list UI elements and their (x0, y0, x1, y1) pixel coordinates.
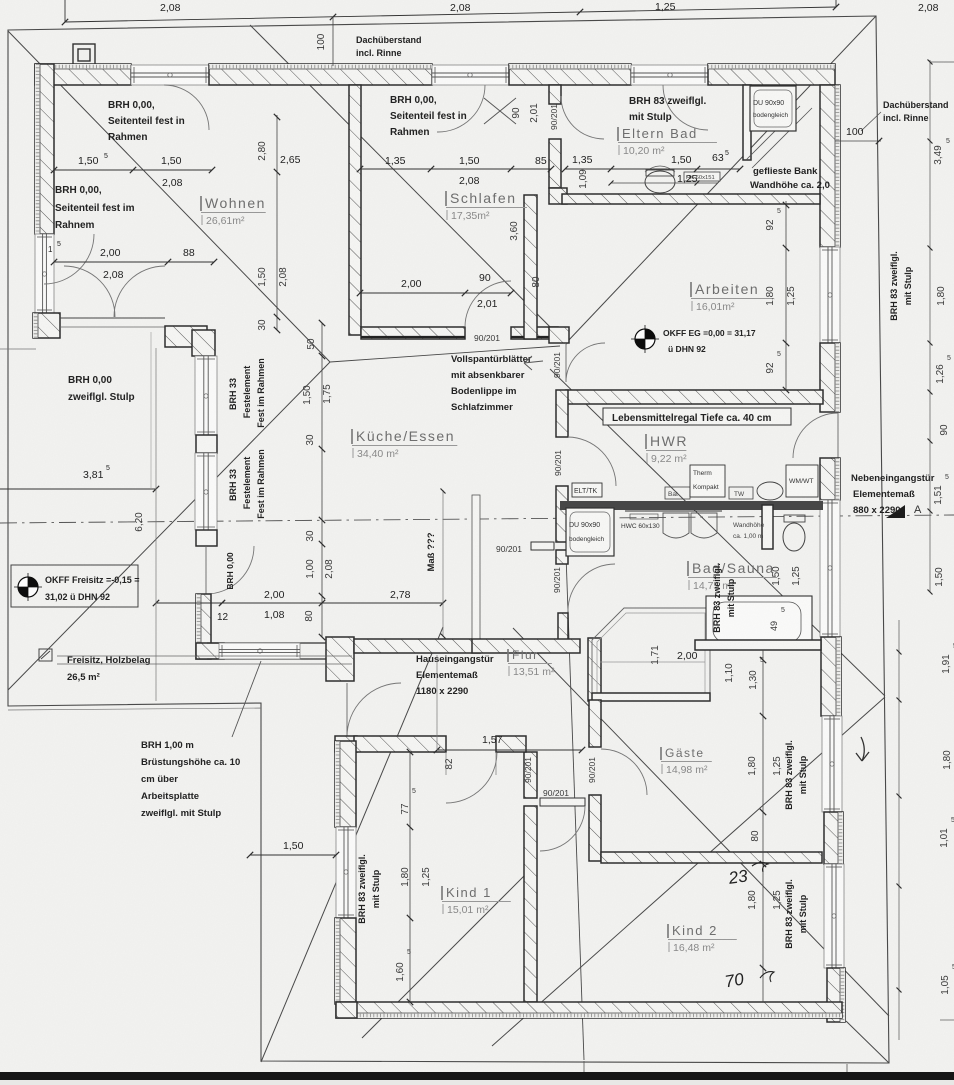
roof ridge south wing vertical (566, 555, 584, 1060)
window Arbeiten east window (820, 247, 840, 343)
wall entrance north wall (354, 639, 480, 653)
room label Schlafen (446, 190, 527, 222)
wall HWR south wall fixtures row (560, 501, 823, 510)
dim Arbeiten vertical (785, 201, 787, 390)
dim gaeste kind2 vertical chain (762, 650, 764, 1002)
basin HWR (757, 482, 783, 500)
dim right outer chain upper (929, 60, 931, 592)
handwritten arrow right side (856, 737, 869, 761)
wall hall west wall piece 2 (556, 486, 568, 542)
roof diagonal kind1 (362, 863, 537, 1038)
roof diagonal flur to south-east corner (513, 628, 889, 1016)
wall Flur east wall upper (588, 638, 601, 701)
WM/WT box (786, 465, 818, 497)
window Wohnen west window BRH 0,00 (35, 234, 54, 313)
ELT/TK box (572, 483, 602, 497)
wall Kind1 east wall upper (524, 752, 537, 798)
wall Schlafen east wall lower piece (549, 139, 561, 188)
door Eltern Bad 90/201 (561, 96, 604, 139)
door Kind1 90/201 82 (446, 752, 497, 803)
wall top wall segment schlafen-elternbad (509, 64, 631, 85)
wall Gaeste south wall (601, 852, 822, 863)
bench geflieste Bank diagonals (746, 106, 800, 160)
wall Wohnen west wall (35, 64, 54, 234)
dim 100 roof overhang right (835, 140, 881, 142)
window Kueche south window (219, 643, 300, 659)
dim Eltern Bad chain (565, 168, 740, 170)
washbasin Eltern Bad oval (645, 166, 675, 172)
bathtub (706, 596, 812, 648)
toilet Eltern Bad (645, 170, 675, 193)
door arc Wohnen west window (44, 234, 94, 284)
survey marker OKFF EG Arbeiten (631, 325, 659, 353)
dim 100 roof overhang top (332, 17, 334, 66)
toilet Bad (783, 515, 805, 551)
wall Gaeste west wall lower (589, 795, 601, 861)
roof ridge (330, 346, 560, 362)
wall Kind1 north wall west part (354, 736, 446, 752)
door Kueche terrace door BRH 0,00 (205, 546, 207, 594)
wall hall west wall stub (558, 613, 568, 641)
door Gaeste 90/201 (601, 749, 647, 795)
wall Schlafen east wall top piece (549, 85, 561, 104)
handwritten 70 (723, 969, 745, 991)
wall Gaeste north wall east part (695, 640, 821, 650)
roof hip south-east corner (846, 1021, 889, 1063)
roof valley to east (550, 369, 885, 696)
door arc vestibule (540, 806, 585, 851)
wall Wohnen south-west corner (33, 313, 60, 338)
wall south wall (336, 1002, 842, 1018)
leader to kueche south window (232, 661, 261, 737)
dim top chain (65, 7, 836, 22)
dim 1,57 (437, 749, 582, 751)
wall Gaeste north wall west part (592, 693, 710, 701)
dim 3,81 (0, 488, 156, 490)
dim kind1 vertical chain (409, 752, 411, 1002)
door HWR 90/201 (568, 437, 616, 486)
room label Eltern Bad (618, 126, 717, 157)
room label Bad/Sauna (688, 560, 777, 592)
wall south-west corner block (336, 1002, 357, 1018)
wall south wing west wall lower (335, 918, 356, 1004)
wall Kueche south wall with window (207, 642, 326, 644)
shower DU 90x90 Eltern Bad (750, 86, 796, 131)
wall top wall east segment (708, 64, 835, 85)
door arc Schlafen top window + X (437, 85, 485, 132)
handwritten 23 (726, 866, 749, 888)
wall Kueche window mullion block 2 (196, 530, 217, 546)
dim line wohnen west vertical (276, 115, 278, 330)
room label Arbeiten (691, 281, 772, 313)
roof hip top-left (8, 31, 330, 362)
wall Schlafen south wall west part (361, 327, 465, 339)
window east window Bad/Sauna (820, 500, 840, 637)
wall Wohnen south wall french door sill (60, 317, 165, 319)
shower DU 90x90 Bad (566, 508, 614, 556)
room label Flur (508, 648, 555, 678)
wall east wall segment gaeste-north (821, 637, 841, 716)
window Kind1 west window BRH 83 (336, 827, 356, 918)
wall Eltern Bad shower partition (743, 85, 751, 160)
window Eltern Bad top window (631, 65, 708, 85)
dim Wohnen west chain (54, 261, 214, 263)
window Gaeste east window BRH 83 (822, 716, 842, 812)
wall Kind1 east wall lower (524, 806, 537, 1002)
room label HWR (646, 433, 688, 465)
wall hall west wall piece 3 (556, 550, 568, 564)
wall WC partition Bad (762, 505, 773, 549)
roof hip east to south-west (492, 697, 885, 1046)
extension tick south (846, 1064, 848, 1074)
checkbox freisitz (39, 649, 52, 661)
kitchen counter MaB (472, 495, 480, 643)
wall Eltern Bad door hinge block (549, 188, 567, 204)
room label Küche/Essen (352, 428, 457, 460)
roof hip top-right (567, 16, 876, 342)
wall Kueche south-west corner foot (196, 643, 224, 659)
section line A-A (0, 515, 954, 523)
Lebensmittelregal box (603, 408, 791, 425)
sauna cabin (592, 608, 710, 700)
roof edge second line freisitz (8, 708, 261, 710)
wall entrance south wall to flur (472, 639, 580, 653)
roof diagonal long from top (250, 25, 567, 344)
wall Gaeste west wall upper (589, 700, 601, 747)
section marker A triangle (886, 505, 905, 518)
door bar Kueche-Flur 90/201 (531, 542, 554, 550)
wall east wall pier 23 (824, 812, 843, 864)
door Schlafen 90/201 (465, 281, 511, 327)
wall top wall middle segment (209, 64, 432, 85)
wall Kind1 north-west corner (335, 736, 357, 752)
dim Schlafen top chain (360, 168, 551, 170)
wall east wall hallway segment (820, 458, 840, 500)
door Arbeiten 90/201 at ridge (565, 343, 567, 382)
freisitz deck edge (57, 655, 352, 657)
dim right outer chain lower (898, 620, 900, 1040)
door bar vestibule 90/201 (540, 798, 585, 806)
door Nebeneingangstuer 880x2290 (837, 413, 839, 458)
roof edge west wing slant (261, 627, 443, 1062)
wall entrance step corner block (326, 637, 354, 681)
wall east wall at Nebeneingang (820, 343, 840, 412)
wall Arbeiten south wall / Lebensmittelregal wall (566, 390, 823, 404)
room label Wohnen (201, 195, 266, 227)
Therme Kompakt box (690, 465, 725, 497)
small box bat (665, 487, 690, 499)
wall Schlafen south-east wall foot (549, 327, 569, 343)
extension lines kueche (155, 348, 157, 701)
wall Kueche north-west corner block (192, 330, 215, 356)
wall south wing west wall upper (335, 741, 356, 827)
dim Schlafen bottom chain (360, 292, 511, 294)
dim 1,50 kind1 west (250, 854, 336, 856)
wall hall west wall piece 1 (556, 390, 568, 437)
door Hauseingangstuer 1180x2290 (346, 683, 348, 737)
window Kueche west window 2 BRH 33 (195, 453, 217, 530)
wall Schlafen south wall east part (511, 327, 558, 339)
roof hip apex to bottom-left (8, 362, 330, 690)
room label Kind 1 (442, 885, 511, 916)
window Schlafen top window (432, 65, 509, 85)
washbasin Eltern Bad HK 60x151 (684, 172, 720, 181)
wall Kind1 north wall east part (496, 736, 526, 752)
wall Wohnen-Schlafen partition (349, 85, 361, 335)
dim Kueche vertical chain (321, 323, 323, 637)
door arc Wohnen top window (164, 85, 209, 130)
dim Wohnen window chain (54, 169, 212, 171)
wall top wall west segment (35, 64, 131, 85)
window Kind 2 east window BRH 83 (824, 864, 844, 968)
dim kueche-entrance horizontal chain (156, 602, 443, 604)
door arc Eltern Bad top window (663, 85, 708, 130)
survey marker OKFF Freisitz box (11, 565, 140, 607)
door Flur-Bad 90/201 (568, 564, 615, 611)
TW box (729, 487, 753, 499)
leader arrow to door (524, 356, 543, 370)
wall Eltern Bad south wall (562, 194, 820, 204)
chimney (73, 44, 95, 66)
window Kueche west window 1 BRH 33 (195, 356, 217, 435)
window Wohnen top window (131, 65, 209, 85)
wall south-east corner wall (827, 968, 845, 1022)
double washbasin HWC 60x130 (625, 511, 722, 538)
scanner black bar bottom (0, 1072, 954, 1080)
room label Kind 2 (668, 923, 737, 954)
wall east wall upper segment (820, 85, 840, 247)
wall Schlafen east wall to hall (524, 195, 537, 339)
room label Gäste (661, 746, 712, 776)
wall Kueche south-west corner wall (196, 594, 211, 659)
wall Kueche window mullion block 1 (196, 435, 217, 453)
wall Wohnen south-east corner block (165, 326, 207, 347)
door arcs Wohnen french door (64, 266, 115, 317)
